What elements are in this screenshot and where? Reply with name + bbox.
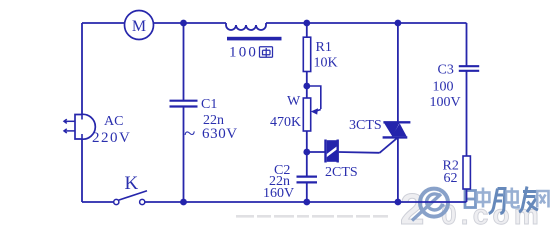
node bottom C2 <box>303 199 310 206</box>
label W 470K <box>270 94 301 130</box>
wire C1 branch <box>183 23 185 202</box>
switch K blade and contacts <box>114 191 147 205</box>
svg-text:2CTS: 2CTS <box>325 165 358 180</box>
node bottom C1 <box>180 199 187 206</box>
wire right rail <box>466 23 468 202</box>
svg-text:M: M <box>132 18 146 35</box>
plug prong lower <box>64 129 75 133</box>
svg-text:100: 100 <box>433 80 454 95</box>
watermark char 月 script <box>489 189 505 214</box>
wire diac to triac gate <box>339 137 398 153</box>
watermark char 日 box <box>465 191 476 208</box>
resistor R2 <box>463 156 470 189</box>
node bottom triac <box>395 199 402 206</box>
svg-text:3CTS: 3CTS <box>349 118 382 133</box>
watermark gray 0.com <box>441 199 543 230</box>
watermark char 电 <box>506 188 519 208</box>
svg-text:220V: 220V <box>92 130 131 146</box>
triac 3CTS <box>383 122 411 137</box>
wire left rail <box>81 23 83 202</box>
watermark char 网 <box>537 191 548 208</box>
potentiometer wiper arrow <box>311 108 321 114</box>
watermark char 辰 script <box>519 187 538 213</box>
label R2 62 <box>443 159 459 187</box>
svg-text:AC: AC <box>104 114 123 129</box>
wire R1 branch top <box>306 23 308 98</box>
svg-text:W: W <box>287 94 301 109</box>
wire top rail left: corner to motor <box>82 22 125 24</box>
capacitor C3 <box>459 66 479 71</box>
node pot bottom <box>303 149 310 156</box>
node top triac <box>395 20 402 27</box>
watermark char 中 <box>477 188 490 208</box>
capacitor C1 <box>170 101 198 107</box>
svg-text:160V: 160V <box>263 186 294 201</box>
inductor core bar <box>227 37 282 41</box>
plug prong upper <box>64 119 75 123</box>
watermark circle logo <box>412 189 448 221</box>
wire C2 bottom <box>306 183 308 202</box>
node top C1 <box>180 20 187 27</box>
label K <box>125 173 139 194</box>
wire bottom rail <box>82 201 467 203</box>
watermark faint gray text line <box>236 215 388 218</box>
svg-text:100: 100 <box>229 45 258 61</box>
svg-text:62: 62 <box>444 171 458 186</box>
capacitor C2 <box>297 177 318 183</box>
node R1-W junction <box>303 83 310 90</box>
label 3CTS <box>349 118 382 133</box>
label AC 220V <box>92 114 131 146</box>
svg-text:~: ~ <box>184 121 195 145</box>
wire top rail: inductor to right corner <box>266 22 467 24</box>
svg-text:C1: C1 <box>201 97 217 112</box>
potentiometer W body <box>303 98 310 131</box>
svg-text:10K: 10K <box>314 56 338 71</box>
label C1 22n ~630V <box>184 97 238 145</box>
motor M <box>125 11 154 40</box>
svg-text:100V: 100V <box>430 95 461 110</box>
wire diac branch left <box>307 151 325 153</box>
plug body <box>75 114 95 139</box>
watermark gray digit 2 <box>400 185 424 234</box>
svg-text:630V: 630V <box>202 126 238 142</box>
inductor coil <box>226 23 266 30</box>
resistor R1 <box>303 37 310 71</box>
label C3 100 100V <box>430 63 461 111</box>
wire pot bottom to C2 <box>306 131 308 176</box>
label 2CTS <box>325 165 358 180</box>
diac 2CTS <box>326 140 340 163</box>
wire triac branch <box>397 23 399 202</box>
inductor label 100匝 <box>229 45 273 61</box>
svg-text:K: K <box>125 173 139 194</box>
svg-text:C3: C3 <box>438 63 454 78</box>
potentiometer wiper arm <box>307 86 321 109</box>
label R1 10K <box>314 40 338 71</box>
node top R1 <box>303 20 310 27</box>
svg-text:470K: 470K <box>270 115 301 130</box>
wire top rail: motor to inductor <box>154 22 227 24</box>
label C2 22n 160V <box>263 163 294 201</box>
svg-text:R1: R1 <box>316 40 332 55</box>
